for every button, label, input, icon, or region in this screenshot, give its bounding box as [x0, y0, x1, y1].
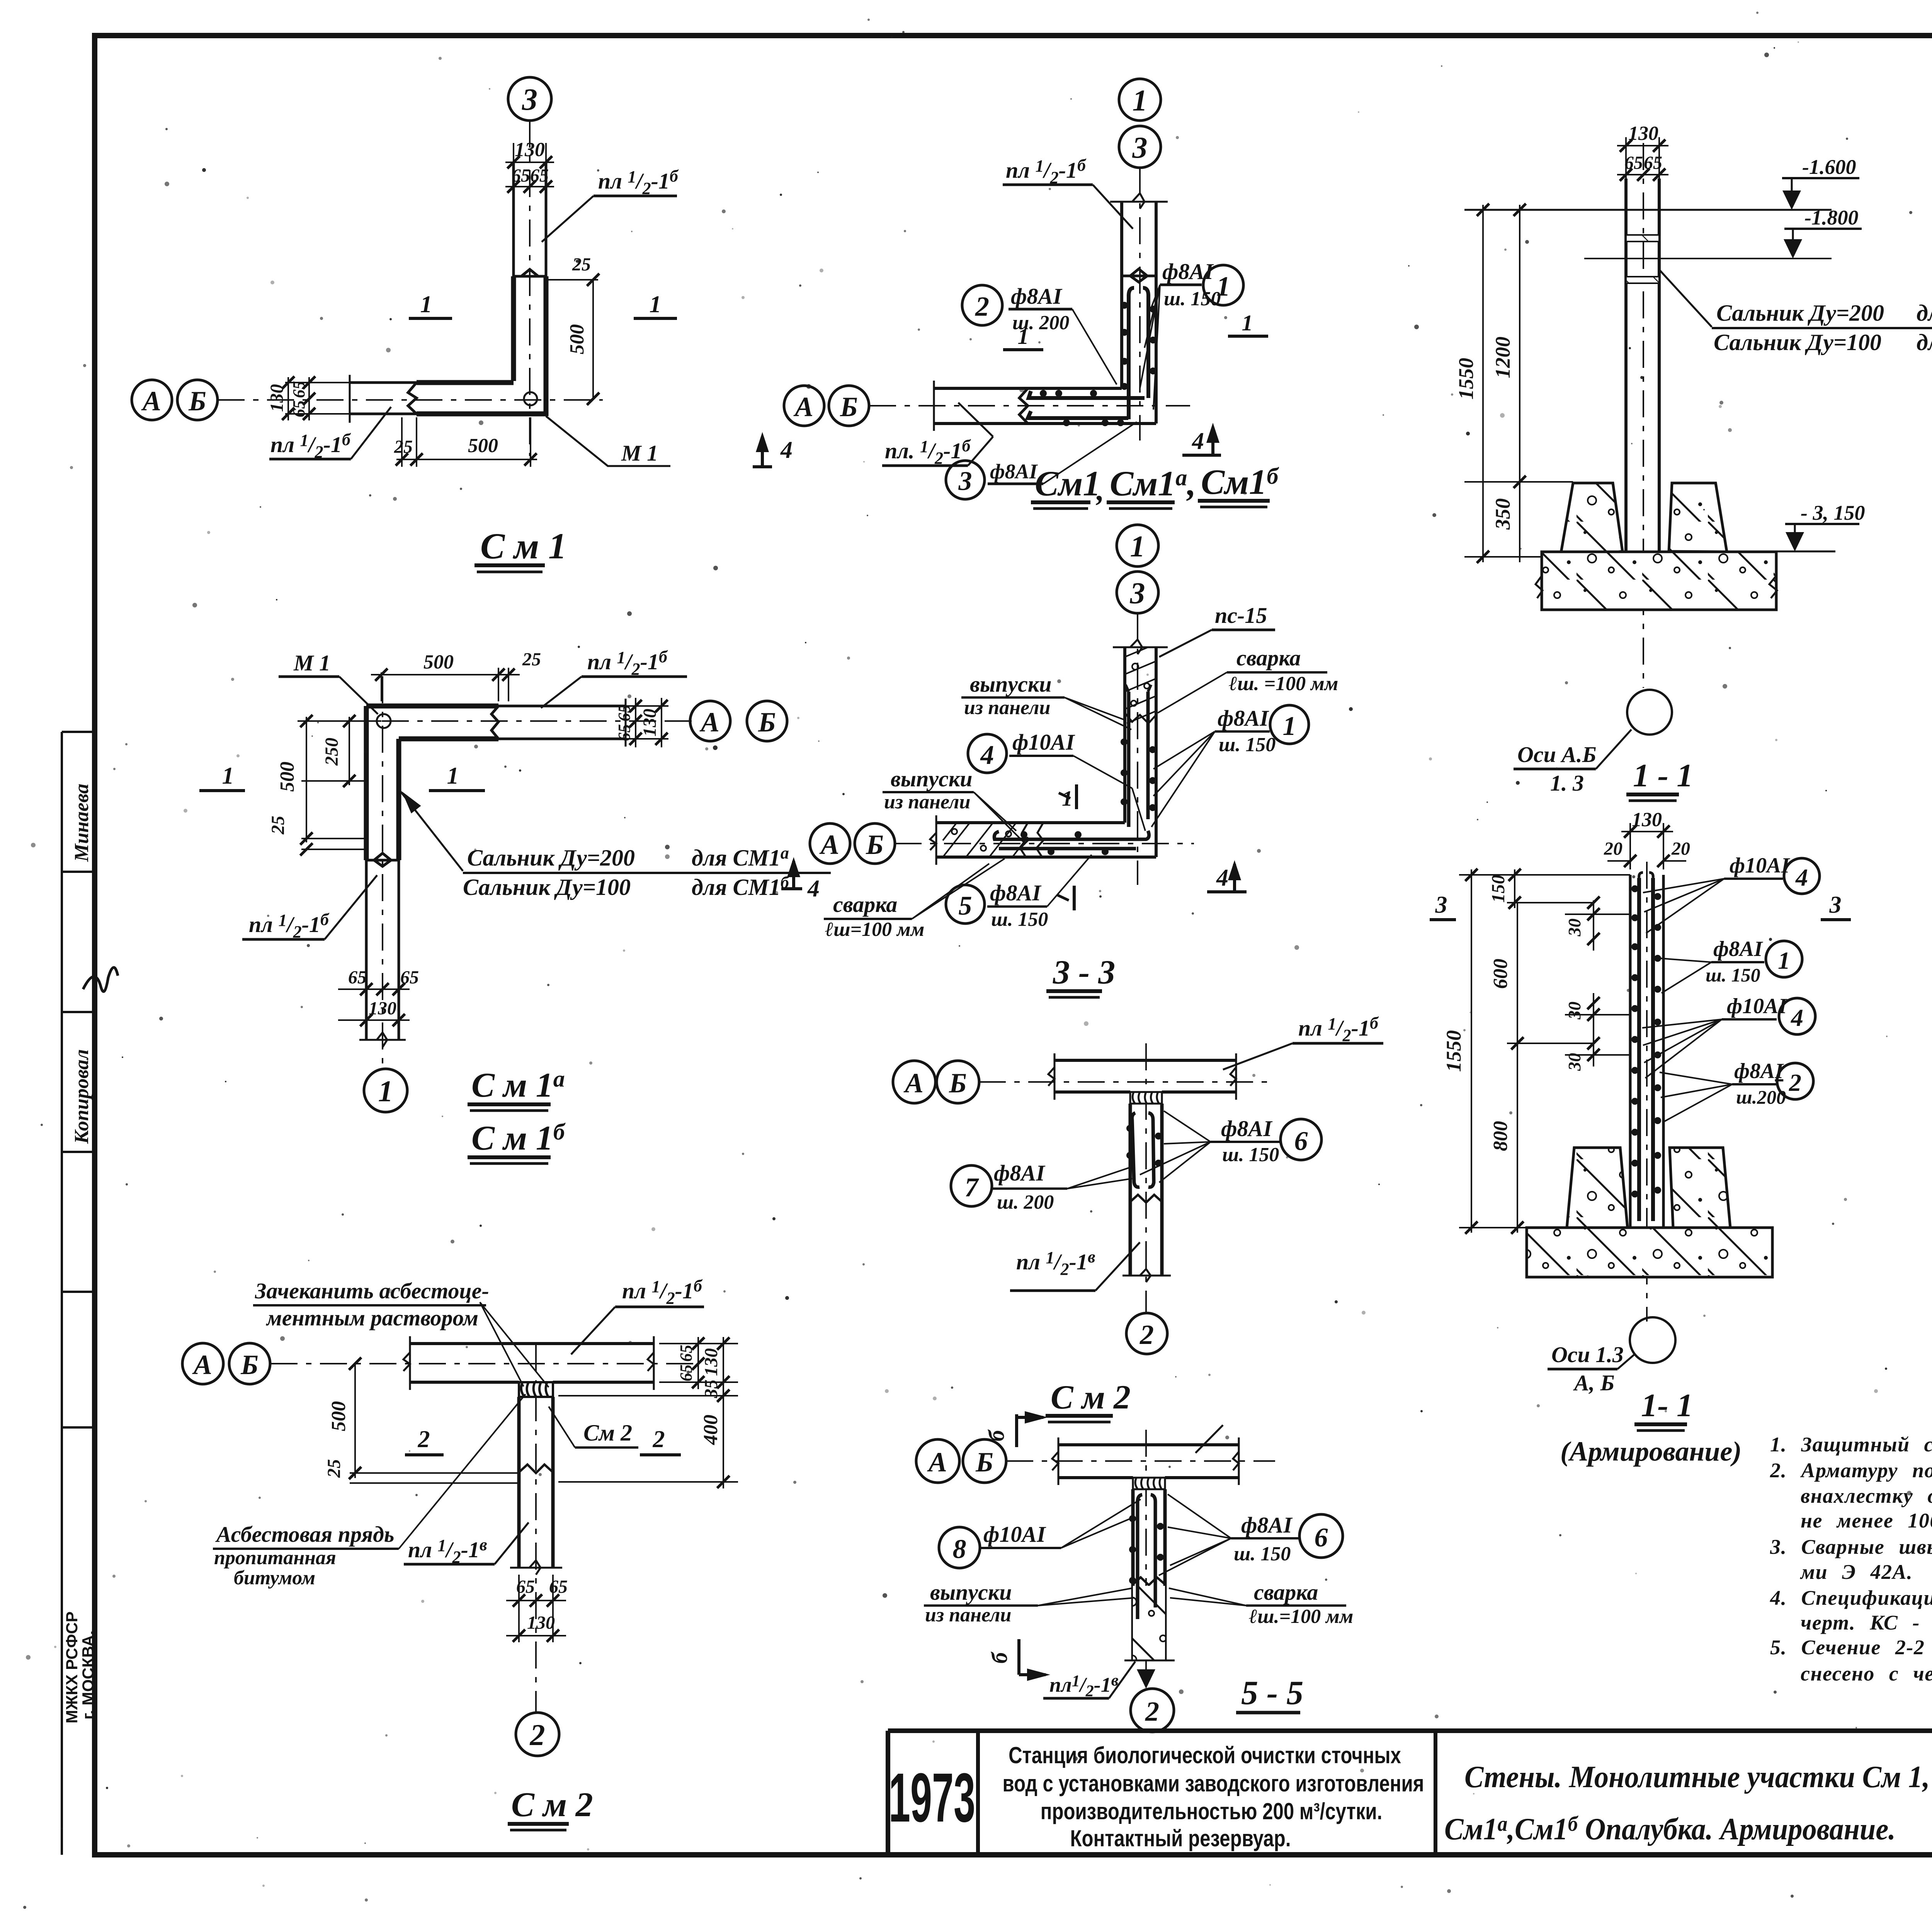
dim 65 65 top [505, 165, 554, 193]
stem break mid [1130, 1195, 1162, 1203]
section mark 2 right [640, 1426, 681, 1455]
project description [1003, 1742, 1424, 1851]
label f10AI pos8 [939, 1499, 1141, 1568]
svg-text:для СМ1а: для СМ1а [692, 844, 789, 871]
axis centerline horizontal [270, 1363, 696, 1364]
axis circle B right [747, 701, 787, 741]
svg-text:3: 3 [1130, 576, 1145, 610]
svg-text:пл 1/2-1в: пл 1/2-1в [408, 1535, 487, 1567]
svg-text:1200: 1200 [1491, 337, 1514, 378]
svg-text:г. МОСКВА.: г. МОСКВА. [79, 1631, 97, 1720]
stem bottom break [1122, 1269, 1171, 1282]
svg-text:4: 4 [1795, 864, 1808, 891]
svg-text:вод с установками заводского и: вод с установками заводского изготовлени… [1003, 1770, 1424, 1796]
dim 1200 [1491, 204, 1526, 488]
right dims 65 65 130 35 400 [558, 1337, 738, 1488]
monolithic M1 horizontal walls (thick) [417, 380, 514, 385]
svg-text:- 3, 150: - 3, 150 [1801, 501, 1865, 524]
vertical wall edges [1120, 202, 1123, 388]
svg-text:пл 1/2-1в: пл 1/2-1в [1016, 1247, 1095, 1279]
rebar horizontal bar bottom [1028, 411, 1128, 418]
svg-text:МЖКХ РСФСР: МЖКХ РСФСР [63, 1611, 81, 1723]
joint packing [1130, 1092, 1162, 1104]
panel right end cut [625, 699, 627, 747]
svg-text:Станция биологической очистки: Станция биологической очистки сточных [1009, 1742, 1401, 1768]
svg-text:Б: Б [949, 1068, 967, 1099]
svg-text:ф8АI: ф8АI [1162, 259, 1214, 284]
svg-text:Б: Б [240, 1349, 259, 1380]
label vypuski iz paneli lower [883, 766, 1024, 842]
label zachekanit [253, 1278, 549, 1387]
svg-text:130: 130 [639, 709, 660, 737]
label ps-15 [1159, 603, 1275, 657]
label f8AI sh150 pos1 right [1151, 705, 1309, 827]
leader M1 [546, 416, 670, 466]
wall top cut line with break [1110, 193, 1168, 209]
axis centerline vertical [1139, 168, 1141, 441]
axis centerline horizontal [1006, 1460, 1275, 1462]
rebar bars U-shaped [1132, 1113, 1139, 1187]
svg-text:1: 1 [1778, 947, 1790, 974]
svg-text:выпуски: выпуски [970, 672, 1052, 697]
wall horizontal edges [410, 1342, 654, 1345]
axis circle 1 [1117, 525, 1158, 566]
svg-text:25: 25 [394, 437, 413, 457]
axis circle B [177, 380, 218, 420]
svg-text:ф10АI: ф10АI [1012, 730, 1075, 755]
rebar dots [1020, 738, 1156, 855]
svg-text:пл 1/2-1б: пл 1/2-1б [622, 1276, 703, 1308]
svg-text:2: 2 [653, 1426, 665, 1453]
label pl 1/2-1b bottom-left [242, 875, 377, 941]
svg-text:2: 2 [1789, 1069, 1801, 1096]
title Cm 2 [1046, 1379, 1131, 1422]
axis circle 3 [1119, 126, 1161, 168]
seal band 2 [1626, 277, 1659, 283]
label pl 1/2-1b bottom-left [269, 407, 391, 461]
svg-text:пл 1/2-1б: пл 1/2-1б [1006, 156, 1087, 187]
section mark b bottom [987, 1639, 1050, 1681]
svg-text:А, Б: А, Б [1573, 1370, 1615, 1395]
svg-text:800: 800 [1490, 1121, 1512, 1151]
svg-text:1: 1 [1133, 83, 1148, 117]
svg-text:7: 7 [965, 1173, 980, 1203]
wall end breaks [403, 1336, 654, 1390]
svg-text:500: 500 [328, 1401, 350, 1431]
svg-text:М 1: М 1 [621, 441, 658, 466]
svg-text:ф8АI: ф8АI [990, 460, 1038, 483]
axis circle below [1630, 1317, 1675, 1363]
label svarka lower [824, 859, 1005, 941]
axis circle 3 [508, 77, 551, 121]
svg-text:Зачеканить асбестоце-: Зачеканить асбестоце- [255, 1278, 489, 1303]
label Osi 1.3 A,B [1548, 1342, 1634, 1395]
label vypuski iz paneli [924, 1580, 1134, 1626]
svg-text:А: А [141, 386, 161, 417]
svg-text:ф8АI: ф8АI [994, 1160, 1046, 1186]
title 1-1 bottom [1560, 1387, 1742, 1467]
stem break mid [519, 1465, 553, 1473]
svg-text:А: А [903, 1068, 923, 1099]
section mark 3 left [1430, 892, 1456, 920]
dim 20 20 top [1604, 839, 1690, 867]
leader salnik [398, 788, 463, 871]
section mark 1 right [634, 291, 677, 318]
dim 500 right [566, 274, 599, 405]
stem bottom line [1124, 1660, 1175, 1662]
dims 65 65 130 bottom [338, 967, 419, 1043]
svg-text:65: 65 [289, 400, 308, 417]
svg-text:4. Спецификацию и выборку: 4. Спецификацию и выборку на монолитные … [1770, 1586, 1932, 1609]
titles Cm1a Cm1b [468, 1066, 566, 1163]
svg-text:ф10АI: ф10АI [983, 1522, 1046, 1547]
dim 65 65 [1617, 153, 1668, 181]
axis centerline vertical [535, 1345, 537, 1712]
asbestos joint packing (dark) [519, 1382, 553, 1397]
dim 500 25 left [324, 1357, 519, 1483]
leader salnik [1660, 270, 1712, 327]
section arrow 4 left [753, 432, 793, 467]
wall end breaks [1052, 1437, 1239, 1485]
svg-text:3: 3 [1435, 892, 1447, 918]
axis circle A [916, 1439, 959, 1483]
section mark 1 left [199, 763, 245, 791]
svg-text:ф8АI: ф8АI [1734, 1059, 1784, 1083]
rebar dots [1631, 885, 1661, 1197]
monolithic M1 vertical walls (thick) [511, 276, 516, 381]
svg-text:А: А [192, 1349, 212, 1380]
label Cm2 with leader [549, 1407, 638, 1448]
svg-text:65: 65 [516, 1577, 535, 1597]
svg-text:1- 1: 1- 1 [1641, 1387, 1693, 1424]
svg-text:4: 4 [1216, 865, 1228, 891]
label asbestos strand [213, 1394, 526, 1589]
label pl 1/2-1v [404, 1522, 529, 1567]
axis centerline vertical [1145, 1043, 1147, 1314]
svg-text:130: 130 [267, 384, 287, 412]
svg-text:1. 3: 1. 3 [1550, 771, 1584, 796]
svg-text:производительностью 200 м: производительностью 200 м³/сутки. [1041, 1798, 1383, 1824]
label pl 1/2-1v [1010, 1242, 1140, 1291]
dim 150 left [1459, 869, 1630, 909]
svg-text:1550: 1550 [1442, 1030, 1465, 1072]
svg-text:пропитанная: пропитанная [214, 1547, 336, 1569]
svg-text:Б: Б [975, 1447, 993, 1478]
dim 500 / 25 bottom [394, 417, 537, 467]
section mark 1 upper [1059, 784, 1077, 811]
wall horizontal edges [1054, 1059, 1236, 1062]
foundation right block [1669, 483, 1727, 552]
svg-text:65: 65 [400, 967, 419, 988]
section mark 3 right [1821, 892, 1851, 920]
svg-text:350: 350 [1491, 498, 1514, 530]
svg-text:А: А [927, 1447, 947, 1478]
svg-text:65: 65 [615, 704, 634, 721]
axis centerline horizontal [979, 1081, 1271, 1083]
section mark 1 right [1228, 310, 1268, 336]
wall vertical panel edges [512, 162, 515, 276]
level -1.800 [1584, 206, 1862, 259]
svg-text:ф8АI: ф8АI [990, 880, 1042, 905]
top cut with break [1113, 640, 1168, 654]
dim 350 [1491, 482, 1520, 562]
panel left end break [930, 815, 936, 865]
svg-text:25: 25 [572, 254, 591, 275]
label svarka [1169, 1580, 1353, 1628]
title 5-5 [1236, 1674, 1303, 1713]
svg-text:пл 1/2-1б: пл 1/2-1б [587, 647, 668, 679]
rebar horizontal bar lower [999, 847, 1136, 850]
foundation left block [1567, 1148, 1628, 1228]
svg-text:Сальник Ду=100: Сальник Ду=100 [1714, 330, 1881, 355]
svg-text:2: 2 [530, 1718, 545, 1752]
dim 250 500 25 left [268, 715, 381, 856]
svg-text:для См1а: для См1а [1917, 299, 1932, 326]
svg-text:пл 1/2-1б: пл 1/2-1б [1298, 1014, 1379, 1045]
svg-text:150: 150 [1488, 875, 1509, 903]
svg-text:65: 65 [1624, 153, 1643, 173]
rebar dots [1040, 302, 1156, 426]
rebar horizontal bar top [1029, 391, 1145, 398]
slab edge breaks [1536, 576, 1777, 598]
svg-text:65: 65 [1644, 153, 1662, 173]
axis circle B [963, 1439, 1006, 1483]
svg-text:снесено с черт. КС - 22.: снесено с черт. КС - 22. [1801, 1662, 1932, 1685]
dim 500 25 top [371, 649, 541, 701]
label f8AI sh150 pos5 [946, 855, 1092, 930]
stem break zigzag [1133, 1577, 1165, 1585]
M1 marker circle at corner [524, 392, 537, 405]
rebar dots [1129, 1515, 1164, 1584]
right side dims 65 65 130 [615, 698, 690, 747]
axis circle 2 below [1126, 1313, 1167, 1354]
svg-text:выпуски: выпуски [930, 1580, 1012, 1605]
horizontal wall edges [934, 387, 1122, 390]
wall centerline [1646, 862, 1648, 1322]
svg-text:3: 3 [522, 83, 537, 117]
svg-text:ш. 150: ш. 150 [1706, 964, 1760, 986]
wall end breaks [1048, 1053, 1236, 1100]
svg-text:ш. 150: ш. 150 [1164, 288, 1221, 310]
level -3.150 [1774, 501, 1865, 551]
svg-text:6: 6 [1294, 1126, 1308, 1156]
label f8AI sh150 pos6 [1159, 1494, 1343, 1575]
wall vertical right edge [396, 739, 401, 860]
title 3-3 [1046, 954, 1115, 997]
vertical panel ps-15 hatched [1125, 647, 1156, 723]
svg-text:1: 1 [1242, 310, 1253, 335]
svg-text:Б: Б [188, 386, 206, 417]
dim 65 65 130 bottom [506, 1575, 568, 1642]
svg-text:65: 65 [677, 1345, 696, 1362]
axis circle A [810, 823, 850, 864]
svg-text:30: 30 [1565, 1053, 1584, 1071]
svg-text:4: 4 [1791, 1004, 1803, 1031]
svg-text:Асбестовая прядь: Асбестовая прядь [215, 1522, 394, 1547]
svg-text:4: 4 [780, 437, 793, 463]
label vypuski iz paneli upper [961, 672, 1131, 730]
svg-text:30: 30 [1565, 919, 1584, 937]
level -1.600 [1464, 155, 1859, 210]
svg-text:3 - 3: 3 - 3 [1053, 954, 1115, 991]
label f10AI pos4 lower [1642, 994, 1815, 1078]
stem edges [517, 1397, 521, 1568]
svg-text:ш. 150: ш. 150 [1222, 1144, 1279, 1166]
label f8AI sh.200 with pos circle 2 [962, 284, 1117, 384]
svg-text:2. Арматуру поз. 4 и 8: 2. Арматуру поз. 4 и 8 приварить к выпус… [1770, 1459, 1932, 1482]
svg-text:из панели: из панели [884, 791, 970, 813]
svg-text:черт. КС - 22: черт. КС - 22 [1801, 1611, 1932, 1634]
svg-text:С м 1б: С м 1б [471, 1119, 566, 1157]
svg-text:ф8АI: ф8АI [1218, 706, 1269, 731]
svg-text:ш. 150: ш. 150 [1234, 1543, 1291, 1565]
label f10AI pos4 [968, 730, 1145, 831]
label Osi A.B 1.3 [1514, 730, 1631, 796]
foundation right block [1670, 1148, 1730, 1228]
panel bottom end cut [359, 1032, 406, 1047]
left margin signature table [62, 732, 118, 1855]
svg-text:25: 25 [324, 1459, 344, 1478]
svg-text:5: 5 [959, 891, 972, 921]
axis circle 2 bottom [516, 1713, 559, 1756]
title 1-1 top [1626, 757, 1693, 801]
svg-text:С м 1: С м 1 [480, 526, 566, 566]
svg-text:Контактный резервуар.: Контактный резервуар. [1070, 1825, 1291, 1851]
svg-text:Оси А.Б: Оси А.Б [1517, 742, 1596, 767]
section arrow 4 right [1182, 423, 1221, 455]
svg-text:См 2: См 2 [583, 1420, 632, 1446]
svg-text:ℓш.=100 мм: ℓш.=100 мм [1249, 1606, 1353, 1628]
svg-text:500: 500 [468, 435, 498, 457]
svg-text:ш. 150: ш. 150 [1219, 734, 1276, 756]
label f8AI sh150 pos6 [1140, 1111, 1321, 1182]
svg-text:Сальник Ду=200: Сальник Ду=200 [1716, 300, 1884, 326]
svg-text:130: 130 [527, 1613, 555, 1633]
dim 130 [1621, 809, 1673, 869]
panel joint zigzags on horizontal wall [1020, 823, 1043, 857]
svg-text:ℓш=100 мм: ℓш=100 мм [825, 919, 924, 941]
horizontal panel hatched [943, 823, 1028, 857]
svg-text:1: 1 [447, 763, 459, 789]
svg-text:65: 65 [549, 1577, 568, 1597]
svg-text:для СМ1б: для СМ1б [692, 873, 790, 900]
svg-text:б: б [987, 1652, 1012, 1664]
svg-text:65: 65 [530, 165, 549, 186]
svg-text:С м 1а: С м 1а [471, 1066, 565, 1104]
svg-text:400: 400 [700, 1415, 722, 1445]
svg-text:-1.600: -1.600 [1802, 155, 1856, 179]
svg-text:2: 2 [975, 291, 989, 322]
svg-text:130: 130 [1628, 122, 1658, 145]
svg-text:ф8АI: ф8АI [1011, 284, 1063, 309]
svg-text:5. Сечение 2-2 и 6- 6 см.: 5. Сечение 2-2 и 6- 6 см. черт. КС - 22 … [1770, 1636, 1932, 1659]
foundation left block [1560, 483, 1622, 557]
label f8AI sh200 pos2 [1660, 1059, 1813, 1123]
svg-text:пл 1/2-1б: пл 1/2-1б [270, 430, 351, 461]
svg-text:65: 65 [512, 165, 530, 186]
svg-text:внахлестку односторонними: внахлестку односторонними фланговыми шва… [1801, 1484, 1932, 1507]
rebar horizontal bar upper [994, 831, 1149, 839]
axis centerline vertical [382, 676, 383, 1070]
axis circle B [937, 1061, 979, 1103]
panel joint on vertical wall [514, 269, 546, 276]
svg-text:сварка: сварка [833, 892, 897, 917]
axis circle 3 [1117, 572, 1158, 613]
label f10AI pos4 upper [1643, 854, 1820, 933]
dim 130 top [505, 139, 554, 170]
label pl 1/2-1b left lower [882, 403, 993, 468]
dim 600 [1490, 903, 1594, 1050]
svg-text:1: 1 [222, 763, 234, 789]
dim 800 [1490, 1043, 1524, 1234]
svg-text:из панели: из панели [925, 1604, 1011, 1626]
svg-text:30: 30 [1565, 1002, 1584, 1020]
svg-text:1: 1 [378, 1074, 393, 1108]
wall vertical left edge [364, 706, 369, 860]
stem edges [1129, 1104, 1132, 1276]
svg-text:1: 1 [1018, 324, 1029, 349]
panel joint on vertical wall [366, 853, 399, 866]
panel joint zigzag on horizontal wall [492, 706, 498, 739]
title Cm1, Cm1a, Cm1b [1031, 462, 1279, 509]
axis centerline horizontal [869, 405, 1190, 407]
section arrow 4 right [1207, 860, 1247, 892]
rebar bars [1138, 1495, 1142, 1619]
label pl 1/2-1b above [1223, 1014, 1383, 1070]
svg-text:Копировал: Копировал [71, 1049, 93, 1144]
svg-text:сварка: сварка [1254, 1580, 1318, 1605]
section mark 1 left [409, 291, 452, 318]
axis circle A right [690, 701, 730, 741]
label f8AI sh.150 with pos circle 1 [1140, 259, 1243, 410]
svg-text:130: 130 [369, 998, 396, 1019]
wall edges [1629, 875, 1632, 1148]
svg-text:2: 2 [418, 1426, 430, 1453]
svg-text:ми Э 42А.: ми Э 42А. [1800, 1560, 1913, 1584]
rebar vertical bar left [1127, 692, 1131, 827]
svg-text:2: 2 [1145, 1696, 1159, 1727]
label M1 [279, 650, 378, 714]
title Cm2 [508, 1786, 593, 1830]
label f8AI sh150 pos1 [1660, 937, 1802, 993]
axis circle B [855, 823, 895, 864]
svg-text:20: 20 [1604, 839, 1622, 859]
dim 1550 left [1454, 204, 1626, 563]
svg-text:Б: Б [840, 391, 858, 422]
svg-text:500: 500 [276, 762, 298, 792]
panel joint on vertical wall [1122, 269, 1156, 282]
base slab [1527, 1228, 1772, 1277]
svg-text:20: 20 [1671, 839, 1690, 859]
svg-text:А: А [699, 707, 719, 738]
svg-text:не менее 100 мм.: не менее 100 мм. [1801, 1509, 1932, 1532]
svg-text:С м 2: С м 2 [511, 1786, 593, 1824]
title Cm1 [474, 526, 566, 572]
axis circle 2 with arrow [1131, 1660, 1174, 1732]
svg-text:ф10АI: ф10АI [1727, 994, 1787, 1018]
rebar hooks top [1126, 685, 1151, 692]
svg-text:пл 1/2-1б: пл 1/2-1б [598, 167, 679, 198]
break mark on horizontal panel [408, 383, 417, 414]
svg-text:(Армирование): (Армирование) [1560, 1436, 1742, 1467]
rebar vertical bar left [1129, 288, 1134, 419]
svg-text:4: 4 [1192, 428, 1204, 454]
title block [888, 1731, 1932, 1852]
svg-text:Оси 1.3: Оси 1.3 [1551, 1342, 1624, 1367]
svg-text:3: 3 [1132, 131, 1148, 164]
svg-text:А: А [793, 391, 813, 422]
svg-text:500: 500 [566, 324, 588, 354]
